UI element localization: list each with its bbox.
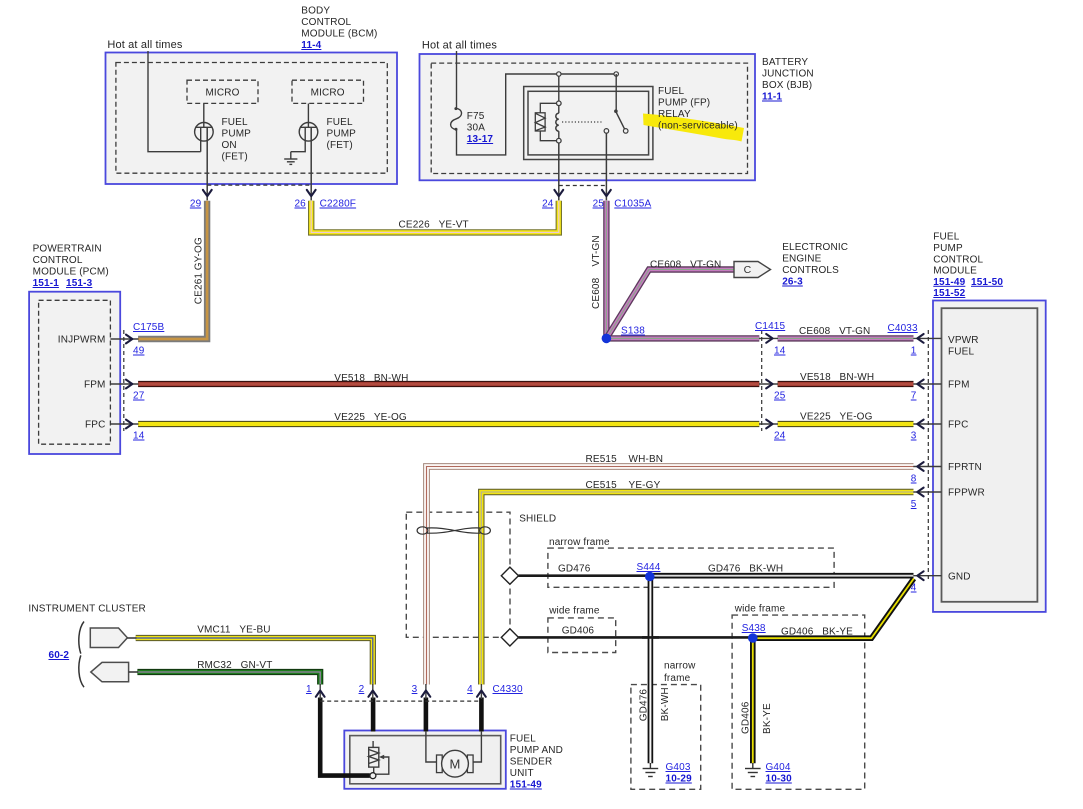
svg-text:FUEL: FUEL <box>510 734 536 745</box>
wire hot feed into BCM <box>148 51 201 152</box>
fuel pump and sender unit box <box>344 731 506 789</box>
svg-text:G403: G403 <box>666 762 691 773</box>
label CE261 GY-OG rotated <box>194 237 205 304</box>
svg-text:Hot at all times: Hot at all times <box>422 40 497 52</box>
svg-text:25: 25 <box>774 391 786 402</box>
svg-text:PUMP AND: PUMP AND <box>510 745 563 756</box>
arrow pin25 <box>602 190 611 196</box>
svg-text:BODY: BODY <box>301 6 330 17</box>
ground G403 symbol <box>643 763 659 777</box>
svg-text:JUNCTION: JUNCTION <box>762 69 814 80</box>
arrow FPCM pin1 <box>917 334 923 343</box>
arrow C1415 row2 <box>766 380 772 389</box>
svg-text:GD406: GD406 <box>562 626 595 637</box>
svg-text:11-1: 11-1 <box>762 92 782 103</box>
svg-text:151-50: 151-50 <box>971 277 1003 288</box>
arrow C4330 pin3 <box>422 691 431 697</box>
PCM pin lead FPC <box>110 423 138 425</box>
label BJB title <box>762 57 814 103</box>
instrument cluster brace <box>79 622 84 688</box>
narrow frame top dashed box <box>548 548 834 587</box>
svg-text:RE515 WH-BN: RE515 WH-BN <box>586 454 664 465</box>
svg-text:FPC: FPC <box>948 420 968 431</box>
svg-text:BK-YE: BK-YE <box>762 703 773 734</box>
svg-text:26: 26 <box>294 199 306 210</box>
svg-text:G404: G404 <box>766 762 791 773</box>
svg-text:GD476: GD476 <box>639 689 650 722</box>
svg-text:3: 3 <box>911 431 917 442</box>
svg-text:RMC32 GN-VT: RMC32 GN-VT <box>197 660 272 671</box>
svg-text:14: 14 <box>133 431 145 442</box>
relay coil terminal bottom <box>557 138 562 143</box>
svg-text:26-3: 26-3 <box>782 277 803 288</box>
svg-text:FUEL: FUEL <box>948 347 974 358</box>
C1415 through lead row1 <box>759 337 778 339</box>
relay pin24 lead <box>558 143 560 200</box>
wire shield drain to S438 <box>518 636 752 639</box>
arrow C1415 row1 <box>766 334 772 343</box>
connector dashed line C4330 <box>320 700 481 702</box>
svg-text:frame: frame <box>664 673 691 684</box>
svg-text:GD406 BK-YE: GD406 BK-YE <box>781 627 853 638</box>
svg-text:VE225 YE-OG: VE225 YE-OG <box>334 412 407 423</box>
shield diamond connector 1 <box>501 567 518 584</box>
relay pin25 lead <box>605 133 607 200</box>
sender junction terminal <box>370 773 376 779</box>
ground inside BCM <box>284 152 297 165</box>
svg-text:60-2: 60-2 <box>49 650 70 661</box>
svg-text:PUMP (FP): PUMP (FP) <box>658 98 710 109</box>
wire CE608 VT-GN pin25 to S138 <box>603 201 609 339</box>
wire CE261 GY-OG pin29 to INJPWRM <box>138 201 207 339</box>
relay switch pivot <box>614 109 618 113</box>
connector dashed line C1415 <box>761 330 763 431</box>
relay switch contact <box>604 129 609 134</box>
svg-text:FUEL: FUEL <box>222 117 248 128</box>
instrument cluster connector flag RMC32 <box>91 662 138 681</box>
relay switch <box>616 74 625 129</box>
svg-text:(FET): (FET) <box>222 152 248 163</box>
sender wiper arm <box>376 755 389 774</box>
svg-text:FUEL: FUEL <box>933 232 959 243</box>
lead C4330 pin3 <box>425 684 427 699</box>
arrow C4330 pin1 <box>316 691 325 697</box>
wire CE608 VT-GN S138 to C1415 <box>606 335 759 341</box>
fuse F75 30A <box>451 107 462 131</box>
svg-text:C1415: C1415 <box>755 321 786 332</box>
fuel pump motor M <box>437 750 474 777</box>
svg-text:GD476 BK-WH: GD476 BK-WH <box>708 564 783 575</box>
svg-text:C4033: C4033 <box>888 323 919 334</box>
svg-text:GY-OG: GY-OG <box>194 237 205 270</box>
svg-text:S444: S444 <box>637 562 661 573</box>
connector dashed line C2280F <box>207 184 311 186</box>
arrow C4330 pin2 <box>368 691 377 697</box>
svg-text:VMC11 YE-BU: VMC11 YE-BU <box>197 625 270 636</box>
svg-text:PUMP: PUMP <box>327 129 357 140</box>
wide frame small dashed box <box>548 618 616 653</box>
svg-text:C175B: C175B <box>133 322 165 333</box>
wire VMC11 YE-BU <box>136 638 373 685</box>
wire micro1 gate <box>203 104 205 128</box>
svg-text:S138: S138 <box>621 326 645 337</box>
arrow FPCM pin3 <box>917 420 923 429</box>
wire fuse to relay bus <box>457 74 617 155</box>
svg-text:FUEL: FUEL <box>327 117 353 128</box>
sender resistor <box>369 741 379 773</box>
svg-text:VE518 BN-WH: VE518 BN-WH <box>800 372 874 383</box>
FPCM pin lead FPC <box>913 423 941 425</box>
wire micro2 gate <box>307 104 309 128</box>
svg-text:29: 29 <box>190 199 202 210</box>
svg-text:S438: S438 <box>742 623 766 634</box>
svg-text:narrow frame: narrow frame <box>549 537 610 548</box>
label FP relay <box>658 86 738 132</box>
arrow FPCM pin4 <box>917 571 923 580</box>
wire GD406 BK-YE S438 down to G404 <box>750 639 756 763</box>
svg-text:8: 8 <box>911 474 917 485</box>
micro box 2 <box>292 80 364 103</box>
arrow pin14 PCM <box>126 420 132 429</box>
powertrain control module PCM box <box>29 292 120 454</box>
arrow FPCM pin8 <box>917 462 923 471</box>
wire VE518 BN-WH FPM right <box>778 381 914 387</box>
svg-text:14: 14 <box>774 346 786 357</box>
svg-text:4: 4 <box>467 684 473 695</box>
C1415 through lead row3 <box>759 423 778 425</box>
svg-text:3: 3 <box>412 684 418 695</box>
svg-text:MODULE: MODULE <box>933 266 977 277</box>
arrow pin24 <box>554 190 563 196</box>
svg-text:M: M <box>450 756 461 771</box>
svg-text:INSTRUMENT CLUSTER: INSTRUMENT CLUSTER <box>28 604 146 615</box>
connector dashed line C175B <box>123 330 125 431</box>
label VPWR FUEL <box>948 335 979 358</box>
label electronic engine controls <box>782 242 848 288</box>
relay coil terminal top <box>557 101 562 106</box>
wire black pin2 stub <box>371 698 376 732</box>
FPCM pin lead VPWR <box>913 337 941 339</box>
svg-text:MICRO: MICRO <box>311 87 345 98</box>
svg-text:FPC: FPC <box>85 420 105 431</box>
svg-text:4: 4 <box>911 583 917 594</box>
label FET1 <box>222 117 252 163</box>
ground G404 symbol <box>745 763 761 777</box>
lead C4330 pin2 <box>372 684 374 699</box>
svg-text:BK-WH: BK-WH <box>660 687 671 721</box>
svg-text:151-49: 151-49 <box>933 277 965 288</box>
svg-text:PUMP: PUMP <box>222 129 252 140</box>
svg-text:ELECTRONIC: ELECTRONIC <box>782 242 848 253</box>
lead C4330 pin1 <box>319 684 321 699</box>
arrow pin49 <box>126 335 132 344</box>
svg-text:151-49: 151-49 <box>510 780 542 791</box>
wire GD406 BK-YE GND pin to S438 <box>753 579 914 639</box>
wire CE226 YE-VT pin26 to pin24 <box>311 201 559 233</box>
FPCM pin lead FPPWR <box>913 491 941 493</box>
shield dashed box <box>406 512 510 637</box>
wire GD476 BK-WH S444 to GND pin <box>650 573 914 579</box>
svg-text:GD476: GD476 <box>558 564 591 575</box>
svg-text:ON: ON <box>222 140 237 151</box>
svg-text:SENDER: SENDER <box>510 757 553 768</box>
svg-text:C2280F: C2280F <box>320 199 356 210</box>
svg-text:RELAY: RELAY <box>658 109 691 120</box>
PCM pin lead FPM <box>110 383 138 385</box>
FPCM pin lead FPM <box>913 383 941 385</box>
svg-text:24: 24 <box>542 199 554 210</box>
svg-text:FPRTN: FPRTN <box>948 462 982 473</box>
svg-text:C: C <box>744 264 752 276</box>
label PCM title <box>33 244 109 290</box>
PCM pin lead INJPWRM <box>110 338 138 340</box>
wire black pin3 stub <box>424 698 429 732</box>
svg-text:INJPWRM: INJPWRM <box>58 335 106 346</box>
wire hot feed into BJB <box>456 51 458 108</box>
svg-text:2: 2 <box>359 684 365 695</box>
svg-text:151-52: 151-52 <box>933 288 965 299</box>
svg-text:F75: F75 <box>467 111 485 122</box>
connector dashed line C4033 <box>927 330 929 582</box>
svg-text:GND: GND <box>948 572 971 583</box>
svg-text:UNIT: UNIT <box>510 768 534 779</box>
wire black pin4 stub <box>479 698 484 732</box>
svg-text:SHIELD: SHIELD <box>519 514 556 525</box>
svg-text:BATTERY: BATTERY <box>762 57 808 68</box>
wire shield drain to S444 <box>518 574 649 577</box>
wide frame big dashed box <box>732 615 865 789</box>
arrow FPCM pin5 <box>917 488 923 497</box>
svg-text:VE518 BN-WH: VE518 BN-WH <box>334 373 408 384</box>
svg-text:MODULE (PCM): MODULE (PCM) <box>33 267 109 278</box>
junction bus dot 1 <box>557 72 561 76</box>
C1415 through lead row2 <box>759 383 778 385</box>
relay coil feed wire <box>558 74 560 101</box>
arrow pin27 <box>126 380 132 389</box>
arrow pin26 <box>307 190 316 196</box>
svg-text:FUEL: FUEL <box>658 86 684 97</box>
svg-text:(non-serviceable): (non-serviceable) <box>658 121 738 132</box>
svg-text:CE608: CE608 <box>591 277 602 309</box>
svg-text:Hot at all times: Hot at all times <box>107 39 182 51</box>
svg-text:CONTROL: CONTROL <box>933 254 983 265</box>
label narrow frame bottom <box>664 661 696 685</box>
fuel pump control module FPCM box <box>933 301 1046 612</box>
svg-text:25: 25 <box>593 199 605 210</box>
label fuel pump sender unit title <box>510 734 563 791</box>
wire VE518 BN-WH FPM left <box>138 381 759 387</box>
svg-text:13-17: 13-17 <box>467 134 494 145</box>
svg-text:BOX (BJB): BOX (BJB) <box>762 80 812 91</box>
svg-text:FPM: FPM <box>948 380 970 391</box>
svg-text:11-4: 11-4 <box>301 40 321 51</box>
svg-text:MICRO: MICRO <box>205 87 239 98</box>
wire VE225 YE-OG FPC left <box>138 421 759 427</box>
svg-text:(FET): (FET) <box>327 140 353 151</box>
label FET2 <box>327 117 357 151</box>
wire pin4 to motor <box>473 731 482 762</box>
wire CE515 YE-GY FPPWR <box>481 492 913 685</box>
wire RMC32 GN-VT <box>137 672 320 685</box>
narrow frame bottom dashed box <box>631 685 701 790</box>
svg-text:wide frame: wide frame <box>734 604 786 615</box>
wire crossing patch GD406 over BK-WH <box>642 636 659 639</box>
svg-text:1: 1 <box>911 346 917 357</box>
svg-text:VT-GN: VT-GN <box>591 235 602 266</box>
svg-text:5: 5 <box>911 499 917 510</box>
shield diamond connector 2 <box>501 629 518 646</box>
svg-text:CE608 VT-GN: CE608 VT-GN <box>650 260 721 271</box>
label CE608 VT-GN rotated <box>591 235 602 309</box>
svg-text:GD406: GD406 <box>741 701 752 734</box>
svg-text:10-30: 10-30 <box>766 774 793 785</box>
svg-text:FPM: FPM <box>84 380 106 391</box>
svg-text:151-1: 151-1 <box>33 278 60 289</box>
svg-text:151-3: 151-3 <box>66 278 93 289</box>
wire GD476 BK-WH S444 down to G403 <box>648 577 654 763</box>
svg-text:C1035A: C1035A <box>614 199 651 210</box>
svg-text:FPPWR: FPPWR <box>948 488 985 499</box>
svg-text:CE226 YE-VT: CE226 YE-VT <box>399 220 469 231</box>
svg-text:27: 27 <box>133 391 145 402</box>
svg-text:CE515 YE-GY: CE515 YE-GY <box>586 480 661 491</box>
transistor FET2 fuel pump <box>291 123 318 201</box>
wire CE608 VT-GN branch S138 to C connector <box>606 270 733 339</box>
svg-text:ENGINE: ENGINE <box>782 254 821 265</box>
arrow FPCM pin7 <box>917 380 923 389</box>
svg-text:C4330: C4330 <box>493 684 524 695</box>
svg-text:CE608 VT-GN: CE608 VT-GN <box>799 326 870 337</box>
svg-text:CE261: CE261 <box>194 273 205 305</box>
svg-text:VPWR: VPWR <box>948 335 979 346</box>
micro box 1 <box>187 80 258 103</box>
svg-text:VE225 YE-OG: VE225 YE-OG <box>800 412 873 423</box>
arrow pin29 <box>203 190 212 196</box>
label fuse F75 <box>467 111 494 145</box>
svg-text:7: 7 <box>911 391 917 402</box>
instrument cluster connector flag VMC11 <box>90 628 136 648</box>
relay switch blade tip <box>623 129 628 134</box>
relay coil <box>556 106 559 139</box>
svg-text:PUMP: PUMP <box>933 243 963 254</box>
highlighter mark non-serviceable <box>643 114 744 142</box>
splice node S138 <box>602 334 612 344</box>
transistor FET1 fuel pump on <box>195 123 214 201</box>
lead C4330 pin4 <box>480 684 482 699</box>
relay dotted actuator line <box>562 121 602 123</box>
connector C flag electronic engine controls <box>734 262 771 278</box>
svg-text:24: 24 <box>774 431 786 442</box>
svg-text:narrow: narrow <box>664 661 696 672</box>
svg-text:MODULE (BCM): MODULE (BCM) <box>301 29 377 40</box>
wire CE608 VT-GN C1415 to C4033 <box>778 335 914 341</box>
splice node S444 <box>645 572 655 582</box>
junction bus dot 2 <box>614 72 618 76</box>
svg-text:30A: 30A <box>467 123 485 134</box>
wire pin3 to motor <box>426 731 437 762</box>
body control module BCM box <box>106 53 398 185</box>
arrow C4330 pin4 <box>477 691 486 697</box>
battery junction box BJB box <box>420 54 756 180</box>
relay economizer resistor <box>535 103 556 140</box>
relay case <box>524 87 653 160</box>
wire black pin1 to sender terminal <box>320 698 370 776</box>
connector dashed line C1035A <box>559 185 607 187</box>
svg-text:49: 49 <box>133 346 145 357</box>
wire RE515 WH-BN FPRTN <box>427 467 914 685</box>
svg-text:CONTROL: CONTROL <box>301 17 351 28</box>
label FPCM title <box>933 232 1003 300</box>
svg-text:CONTROLS: CONTROLS <box>782 265 839 276</box>
svg-text:1: 1 <box>306 684 312 695</box>
svg-text:wide frame: wide frame <box>548 606 600 617</box>
svg-text:CONTROL: CONTROL <box>33 255 83 266</box>
arrow C1415 row3 <box>766 420 772 429</box>
wire VE225 YE-OG FPC right <box>778 421 914 427</box>
twisted pair symbol <box>417 527 490 534</box>
svg-text:10-29: 10-29 <box>666 774 693 785</box>
splice node S438 <box>748 633 758 643</box>
FPCM pin lead GND <box>913 575 941 577</box>
label BCM title <box>301 6 377 52</box>
svg-text:POWERTRAIN: POWERTRAIN <box>33 244 102 255</box>
FPCM pin lead FPRTN <box>913 466 941 468</box>
